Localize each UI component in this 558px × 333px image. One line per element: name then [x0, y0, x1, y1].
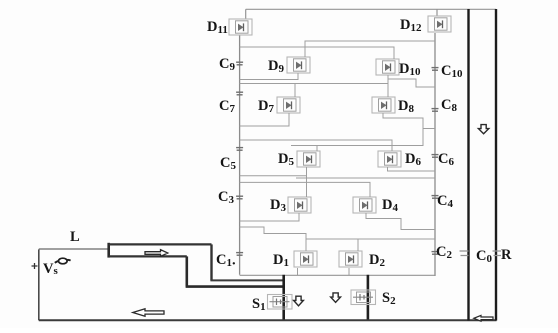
capacitor C1 [236, 253, 243, 256]
wire D2 bottom [348, 268, 350, 275]
capacitor C6 [432, 155, 439, 158]
svg-text:C2: C2 [436, 244, 452, 261]
svg-text:S2: S2 [382, 290, 396, 307]
diode D1 [294, 251, 317, 267]
capacitor C9 [236, 62, 243, 65]
svg-text:L: L [70, 229, 80, 245]
wire thick path B right [186, 285, 284, 288]
switch S1 [268, 295, 293, 310]
node output rail C0 [467, 9, 469, 321]
wire D2 top drop [357, 239, 359, 251]
wire gap2: D9 bottom to left rail [240, 73, 298, 80]
current arrow left bottom output [474, 315, 493, 321]
svg-text:D7: D7 [258, 98, 274, 115]
wire bottom bus [39, 319, 497, 321]
switch S2 [351, 290, 376, 305]
diode D7 [277, 97, 300, 113]
current arrow down at S1 [294, 296, 304, 306]
capacitor C4 [432, 196, 439, 199]
current arrow down output [478, 125, 488, 134]
wire gap3: left rail to D6 top [240, 140, 392, 151]
svg-text:D10: D10 [399, 61, 421, 78]
svg-text:D9: D9 [268, 58, 284, 75]
wire S2 leg [367, 275, 370, 321]
wire gap5: left rail step to D1 top [240, 227, 306, 251]
wire source top [39, 248, 109, 250]
diode D3 [288, 197, 311, 213]
diode D6 [378, 151, 401, 167]
wire gap5: D4 bottom step to right rail [366, 213, 435, 230]
svg-text:C5: C5 [220, 155, 236, 172]
node polarity tick [32, 263, 38, 269]
capacitor C7 [236, 92, 243, 95]
wire gap4: mid line to right rail [296, 177, 435, 179]
svg-text:C6: C6 [438, 151, 454, 168]
wire gap3: D8 bottom step [291, 113, 423, 146]
wire thick path A right [210, 279, 283, 281]
svg-text:D8: D8 [398, 98, 414, 115]
wire gap3: D7 bottom to left rail [240, 113, 289, 126]
wire D10 bottom to D8 top [387, 75, 389, 97]
svg-text:S1: S1 [252, 296, 266, 313]
current arrow right in L [145, 250, 168, 257]
wire switch bus [240, 274, 435, 276]
diode D8 [372, 97, 395, 113]
node output rail R [495, 9, 497, 321]
wire gap5: D3 bottom to left rail [240, 213, 299, 221]
diode D4 [353, 197, 376, 213]
capacitor C3 [236, 196, 243, 199]
wire gap5: D2 top line to right rail [306, 238, 435, 240]
svg-text:C0: C0 [476, 248, 492, 265]
diode D10 [376, 59, 399, 75]
svg-text:D1: D1 [273, 252, 289, 269]
svg-text:C4: C4 [437, 193, 453, 210]
svg-text:Vs: Vs [43, 261, 58, 277]
wire S1 leg [282, 275, 285, 321]
diode D5 [297, 151, 320, 167]
svg-text:C10: C10 [441, 63, 463, 80]
wire gap2 step to right rail [388, 79, 435, 87]
svg-text:D2: D2 [369, 252, 385, 269]
svg-text:C9: C9 [219, 56, 235, 73]
wire gap1 upper: D9 top to right rail [305, 41, 435, 57]
wire gap4: left rail to D4 top [240, 182, 370, 197]
voltage source Vs symbol [55, 258, 71, 264]
svg-text:D5: D5 [278, 151, 294, 168]
wire gap1 lower: left rail to D10 top [240, 47, 394, 59]
capacitor C0 plate ticks [460, 251, 469, 256]
wire source left leg [38, 249, 40, 320]
svg-text:D12: D12 [400, 17, 422, 34]
svg-text:D6: D6 [405, 151, 421, 168]
capacitor C8 [432, 109, 439, 112]
diode D11 [229, 19, 252, 35]
node right rail [434, 33, 436, 276]
diode D12 [428, 16, 451, 32]
wire top bus [246, 8, 496, 10]
wire thick path A down [210, 244, 212, 280]
svg-text:D11: D11 [207, 19, 228, 36]
wire D7 top drop [294, 84, 296, 98]
capacitor C2 [432, 252, 439, 255]
svg-text:R: R [501, 247, 512, 263]
capacitor C10 [432, 68, 439, 71]
current arrow down at S2 [331, 293, 341, 302]
svg-text:C1.: C1. [216, 252, 236, 269]
node left rail [239, 35, 241, 275]
svg-text:D4: D4 [382, 197, 398, 214]
svg-text:C8: C8 [441, 97, 457, 114]
diode D9 [287, 57, 310, 73]
wire D12 top stub [436, 9, 438, 16]
resistor R plate ticks [493, 251, 502, 256]
current arrow left on bottom bus [133, 309, 164, 317]
wire D1 bottom [297, 268, 299, 275]
diode D2 [339, 251, 362, 267]
wire D11 top stub [245, 9, 247, 19]
wire gap4: D6 bottom to right rail [388, 167, 436, 171]
wire thick path B down [186, 256, 189, 286]
svg-text:D3: D3 [270, 197, 286, 214]
wire gap3 step to right rail [423, 128, 435, 130]
capacitor C5 [236, 148, 243, 151]
svg-text:C3: C3 [218, 189, 234, 206]
wire gap4: left rail upper [240, 175, 307, 177]
svg-text:C7: C7 [219, 98, 235, 115]
wire gap4: D5 bottom to D3 top [306, 167, 308, 197]
inductor L [109, 243, 212, 258]
wire gap2: left rail to D7 top [240, 83, 388, 85]
